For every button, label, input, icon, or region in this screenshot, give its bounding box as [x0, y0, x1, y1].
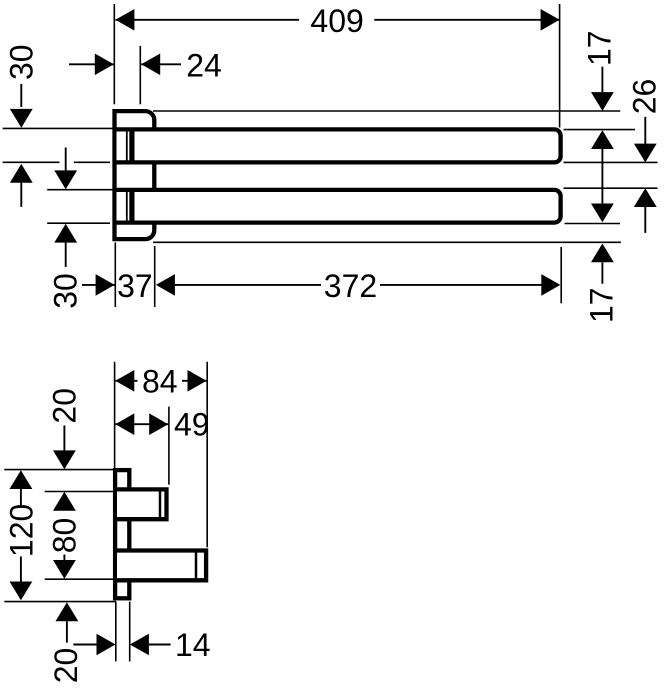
ext line arm2 bottom left — [47, 222, 110, 224]
ext line 49 right front — [168, 407, 170, 485]
dim 24 right arrowhead — [141, 54, 160, 76]
dim 80 down arrowhead — [53, 560, 76, 579]
ext line arm1 bottom right — [564, 161, 658, 163]
ext line 409 right — [559, 4, 561, 128]
dim 120 lower stem — [20, 557, 22, 582]
dim 17 top down arrowhead — [591, 92, 614, 111]
lower arm stub (front view) — [117, 551, 206, 581]
dim 409 line — [115, 19, 559, 21]
dim 26 down arrowhead — [634, 144, 657, 163]
ext line 84 left front — [114, 362, 116, 469]
dim 409 left arrowhead — [115, 9, 134, 31]
svg-text:80: 80 — [46, 518, 82, 554]
ext line 14 left — [115, 602, 117, 662]
svg-text:120: 120 — [4, 504, 40, 557]
svg-text:49: 49 — [174, 406, 210, 442]
upper arm stub end cap line — [159, 489, 162, 519]
dim 372 left arrowhead — [156, 274, 175, 296]
upper arm (side view) — [117, 129, 561, 162]
ext line bar bottom left front — [4, 601, 116, 603]
dim 30 mid down arrowhead — [54, 170, 77, 189]
ext line arm1 top right — [564, 129, 636, 131]
dim 17 bottom up arrowhead — [591, 244, 614, 263]
dim 372 right arrowhead — [541, 274, 560, 296]
lower arm (side view) — [117, 190, 561, 223]
ext line arm2 bottom right — [565, 223, 621, 225]
lower arm pivot line thin — [126, 192, 128, 221]
dim 14 left stem — [73, 644, 96, 646]
svg-text:24: 24 — [186, 47, 222, 83]
dim 17 top stem — [601, 67, 603, 92]
dim 372 line — [175, 284, 542, 286]
ext line plate top right — [153, 110, 620, 112]
dim 49 line — [115, 423, 168, 425]
dim 26 up arrowhead — [634, 188, 657, 207]
dim 24 line — [69, 63, 181, 65]
lower arm stub end cap line — [195, 551, 198, 581]
svg-text:30: 30 — [48, 273, 84, 309]
dim 17 top up arrowhead — [591, 130, 614, 149]
dim 30 top stem — [20, 84, 22, 107]
dim 17 bottom stem — [601, 262, 603, 283]
dim 14 left arrowhead — [97, 634, 116, 656]
dim 26 stem — [644, 117, 646, 144]
ext line arm1 bottom left — [3, 161, 110, 163]
dim 30 mid up arrowhead — [54, 224, 77, 243]
dim 20 bottom stem — [66, 621, 68, 642]
svg-text:409: 409 — [310, 3, 363, 39]
svg-text:30: 30 — [3, 44, 39, 80]
dim 20 bottom up arrowhead — [56, 602, 79, 621]
ext line arm2 top left — [47, 189, 113, 191]
dim 120 upper stem — [20, 489, 22, 508]
ext line stub2 bottom left front — [45, 578, 114, 580]
ext line 37 right 372 left — [154, 246, 156, 307]
dim 37 stem — [82, 284, 115, 286]
dim 84 line — [115, 380, 206, 382]
ext line 37 left — [114, 242, 116, 307]
ext line 409/24 left — [113, 4, 115, 104]
svg-text:17: 17 — [581, 30, 617, 66]
svg-text:20: 20 — [47, 388, 83, 424]
dim 24 left arrowhead — [95, 54, 114, 76]
dim 80 up arrowhead — [53, 492, 76, 511]
wall plate bar (front view) — [115, 470, 129, 598]
lower arm pivot line thick — [129, 192, 134, 221]
ext line 84 right front — [206, 362, 208, 547]
dim 120 up arrowhead — [10, 470, 33, 489]
dim 84 right arrowhead — [188, 370, 207, 392]
dim 20 top down arrowhead — [53, 450, 76, 469]
svg-text:372: 372 — [324, 268, 377, 304]
ext line 372 right — [560, 247, 562, 303]
svg-text:20: 20 — [48, 648, 84, 684]
dim 30 top up arrowhead — [10, 164, 33, 183]
dim 26 lower stem — [644, 207, 646, 233]
ext line bar top left front — [4, 469, 113, 471]
dim 20 top stem — [63, 425, 65, 451]
svg-text:17: 17 — [583, 287, 619, 323]
upper arm pivot line thin — [126, 131, 128, 160]
ext line stub1 top left front — [45, 491, 114, 493]
dim 120 down arrowhead — [10, 582, 33, 601]
dim 14 right stem — [149, 644, 171, 646]
ext line arm1 top left — [3, 127, 113, 129]
dim 14 right arrowhead — [130, 634, 149, 656]
upper arm pivot line thick — [129, 131, 134, 160]
ext line 24 right — [139, 46, 141, 104]
svg-text:26: 26 — [627, 79, 663, 115]
dim 409 right arrowhead — [541, 9, 560, 31]
dim 49 left arrowhead — [115, 413, 134, 435]
wall plate (side view) — [115, 111, 155, 239]
ext line 14 right — [129, 602, 131, 662]
svg-text:84: 84 — [142, 363, 178, 399]
dim 30 mid stem — [65, 243, 67, 267]
svg-text:14: 14 — [175, 627, 211, 663]
dim 30 top down arrowhead — [10, 109, 33, 128]
dim 30 mid upper stem — [65, 148, 67, 172]
dim 17 middle stem — [601, 149, 603, 203]
dim 37 arrowhead — [96, 274, 115, 296]
dim 49 right arrowhead — [149, 413, 168, 435]
dim 17 bottom down arrowhead — [591, 204, 614, 223]
dim 84 left arrowhead — [115, 370, 134, 392]
upper arm stub (front view) — [117, 489, 167, 519]
dim 30 top lower stem — [20, 183, 22, 207]
dim 80 lower stem — [63, 555, 65, 563]
svg-text:37: 37 — [117, 268, 153, 304]
ext line plate bottom right — [153, 241, 621, 243]
ext line arm2 top right — [564, 187, 658, 189]
